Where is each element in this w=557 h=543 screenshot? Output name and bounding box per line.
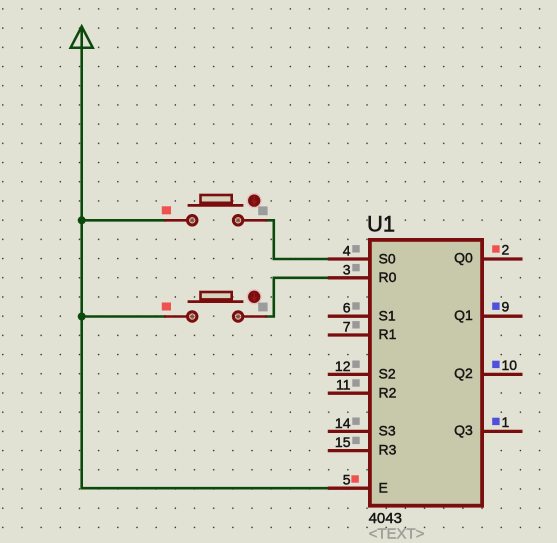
svg-text:S0: S0 <box>379 250 396 266</box>
svg-text:<TEXT>: <TEXT> <box>369 526 425 543</box>
svg-text:E: E <box>379 480 388 496</box>
svg-text:Q3: Q3 <box>454 422 473 438</box>
svg-text:R0: R0 <box>379 269 397 285</box>
svg-text:4043: 4043 <box>369 510 402 527</box>
svg-text:Q2: Q2 <box>454 365 473 381</box>
svg-text:11: 11 <box>336 377 351 393</box>
svg-text:3: 3 <box>343 261 351 277</box>
svg-text:15: 15 <box>335 434 351 450</box>
svg-text:S3: S3 <box>379 423 396 439</box>
svg-text:R1: R1 <box>379 326 397 342</box>
svg-text:S2: S2 <box>379 366 396 382</box>
svg-text:6: 6 <box>343 300 351 316</box>
svg-text:Q1: Q1 <box>454 307 473 323</box>
svg-text:S1: S1 <box>379 308 396 324</box>
svg-text:Q0: Q0 <box>454 250 473 266</box>
svg-text:14: 14 <box>335 415 351 431</box>
svg-text:4: 4 <box>343 243 351 259</box>
svg-text:5: 5 <box>343 472 351 488</box>
svg-text:12: 12 <box>335 358 351 374</box>
svg-text:9: 9 <box>502 299 510 315</box>
svg-text:U1: U1 <box>367 212 395 237</box>
svg-text:R2: R2 <box>379 384 397 400</box>
svg-text:2: 2 <box>502 242 510 258</box>
svg-text:1: 1 <box>502 414 510 430</box>
svg-text:R3: R3 <box>379 442 397 458</box>
svg-text:7: 7 <box>343 319 351 335</box>
svg-text:10: 10 <box>502 357 518 373</box>
